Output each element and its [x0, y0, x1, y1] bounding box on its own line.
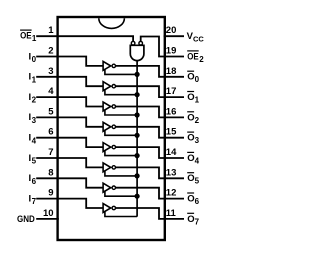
- output wire O6 (pin 12): [116, 188, 185, 199]
- input wire I4 (pin 6): [36, 138, 103, 147]
- enable tap for buffer 1: [105, 69, 137, 75]
- svg-text:16: 16: [166, 106, 177, 117]
- svg-text:3: 3: [32, 116, 37, 125]
- svg-text:6: 6: [32, 177, 37, 186]
- inverting buffer 8 triangle: [103, 204, 111, 213]
- enable gate U1 (AND, pointing down): [130, 45, 144, 60]
- pin 10 stub (GND): [36, 218, 59, 220]
- svg-text:7: 7: [32, 197, 37, 206]
- svg-text:20: 20: [166, 25, 177, 36]
- svg-text:O: O: [187, 72, 194, 83]
- junction dot buffer 4 enable: [135, 133, 140, 138]
- enable tap for buffer 7: [105, 191, 137, 197]
- buffer 7 output bubble: [112, 186, 115, 189]
- buffer 4 output bubble: [112, 125, 115, 128]
- junction dot buffer 6 enable: [135, 173, 140, 178]
- gate input bubble A: [131, 41, 135, 45]
- enable tap for buffer 4: [105, 130, 137, 136]
- svg-text:OE: OE: [187, 51, 199, 62]
- svg-text:17: 17: [166, 86, 177, 97]
- svg-text:4: 4: [32, 136, 37, 145]
- svg-text:2: 2: [32, 96, 37, 105]
- svg-text:2: 2: [195, 116, 200, 125]
- inverting buffer 5 triangle: [103, 143, 111, 152]
- svg-text:O: O: [187, 173, 194, 184]
- svg-text:15: 15: [166, 127, 177, 138]
- svg-text:7: 7: [48, 147, 53, 158]
- svg-text:6: 6: [48, 127, 53, 138]
- buffer 1 output bubble: [112, 64, 115, 67]
- svg-text:CC: CC: [193, 34, 204, 43]
- svg-text:18: 18: [166, 66, 177, 77]
- enable tap for buffer 8: [105, 211, 137, 217]
- inverting buffer 1 triangle: [103, 61, 111, 70]
- output wire O2 (pin 16): [116, 107, 185, 118]
- svg-text:O: O: [187, 214, 194, 225]
- junction dot buffer 7 enable: [135, 194, 140, 199]
- svg-text:O: O: [187, 194, 194, 205]
- svg-text:3: 3: [195, 136, 200, 145]
- svg-text:O: O: [187, 92, 194, 103]
- svg-text:0: 0: [195, 75, 200, 84]
- input wire I3 (pin 5): [36, 117, 103, 126]
- svg-text:12: 12: [166, 188, 177, 199]
- input wire I6 (pin 8): [36, 178, 103, 187]
- input wire I7 (pin 9): [36, 199, 103, 208]
- junction dot buffer 3 enable: [135, 112, 140, 117]
- junction dot buffer 5 enable: [135, 153, 140, 158]
- output wire O1 (pin 17): [116, 86, 185, 97]
- svg-text:3: 3: [48, 66, 53, 77]
- gate input bubble B: [139, 41, 143, 45]
- inverting buffer 6 triangle: [103, 163, 111, 172]
- junction dot buffer 1 enable: [135, 72, 140, 77]
- svg-text:8: 8: [48, 167, 53, 178]
- enable tap for buffer 2: [105, 89, 137, 95]
- svg-text:5: 5: [32, 157, 37, 166]
- svg-text:10: 10: [43, 208, 54, 219]
- svg-text:O: O: [187, 153, 194, 164]
- svg-text:5: 5: [195, 177, 200, 186]
- input wire I5 (pin 7): [36, 158, 103, 167]
- svg-text:13: 13: [166, 167, 177, 178]
- svg-text:1: 1: [48, 25, 54, 36]
- output wire O5 (pin 13): [116, 167, 185, 178]
- svg-text:2: 2: [48, 46, 53, 57]
- pin 20 stub (VCC): [164, 35, 184, 37]
- output wire O3 (pin 15): [116, 127, 185, 138]
- input wire I0 (pin 2): [36, 57, 103, 66]
- junction dot buffer 2 enable: [135, 92, 140, 97]
- enable bus (gate output): [136, 61, 138, 217]
- svg-text:4: 4: [195, 156, 200, 165]
- svg-text:7: 7: [195, 217, 200, 226]
- inverting buffer 3 triangle: [103, 102, 111, 111]
- svg-text:1: 1: [32, 34, 37, 43]
- buffer 5 output bubble: [112, 145, 115, 148]
- svg-text:19: 19: [166, 46, 177, 57]
- pin 19 wire (OE2) to gate input B: [141, 37, 184, 57]
- buffer 8 output bubble: [112, 206, 115, 209]
- inverting buffer 4 triangle: [103, 122, 111, 131]
- enable tap for buffer 5: [105, 150, 137, 156]
- svg-text:OE: OE: [20, 31, 32, 42]
- svg-text:O: O: [187, 112, 194, 123]
- svg-text:1: 1: [32, 75, 37, 84]
- svg-text:O: O: [187, 133, 194, 144]
- input wire I1 (pin 3): [36, 77, 103, 86]
- svg-text:5: 5: [48, 106, 54, 117]
- svg-text:1: 1: [195, 96, 200, 105]
- enable tap for buffer 3: [105, 110, 137, 116]
- buffer 6 output bubble: [112, 166, 115, 169]
- svg-text:6: 6: [195, 197, 200, 206]
- pin 1 wire (OE1) to gate input A: [36, 36, 133, 41]
- svg-text:GND: GND: [17, 214, 35, 225]
- inverting buffer 2 triangle: [103, 82, 111, 91]
- svg-text:2: 2: [199, 55, 204, 64]
- IC body outline: [58, 17, 165, 240]
- pin-1 index notch: [99, 18, 125, 28]
- svg-text:9: 9: [48, 188, 53, 199]
- output wire O7 (pin 11): [116, 208, 185, 219]
- inverting buffer 7 triangle: [103, 183, 111, 192]
- enable tap for buffer 6: [105, 170, 137, 176]
- svg-text:14: 14: [166, 147, 177, 158]
- buffer 2 output bubble: [112, 85, 115, 88]
- svg-text:4: 4: [48, 86, 54, 97]
- output wire O0 (pin 18): [116, 66, 185, 77]
- svg-text:11: 11: [166, 208, 177, 219]
- input wire I2 (pin 4): [36, 97, 103, 106]
- buffer 3 output bubble: [112, 105, 115, 108]
- output wire O4 (pin 14): [116, 147, 185, 158]
- svg-text:0: 0: [32, 55, 37, 64]
